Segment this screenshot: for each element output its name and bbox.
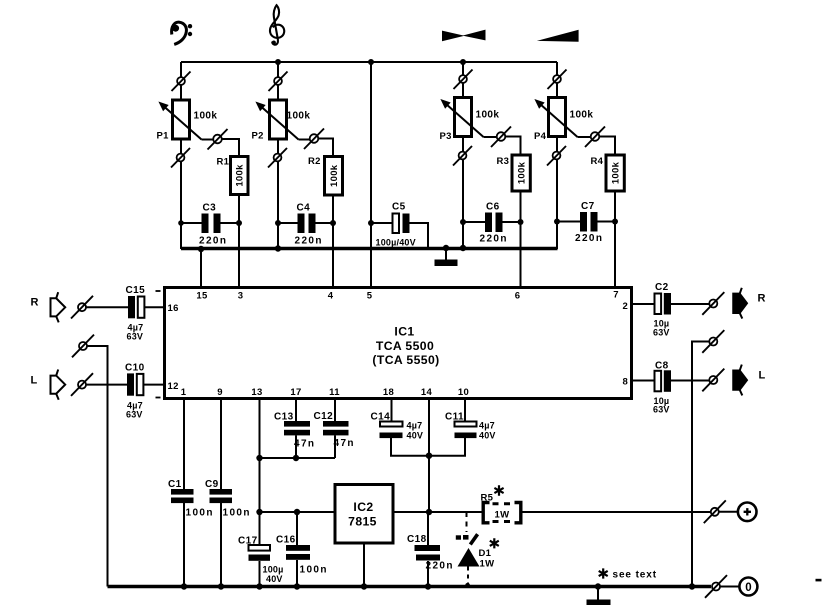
svg-text:C10: C10 — [125, 363, 145, 374]
wire: right ground column — [692, 342, 709, 587]
node C3/P1 — [178, 220, 184, 226]
stray scan mark — [816, 579, 822, 582]
node IC2 ground/bus — [361, 583, 367, 589]
volume symbol — [537, 30, 579, 42]
svg-text:16: 16 — [168, 303, 179, 314]
wire: pin 9 — [220, 399, 222, 490]
resistor R2 100k — [308, 156, 343, 195]
wire: P2 wiper to R2 — [319, 139, 334, 157]
wire: IC2 ground — [363, 543, 365, 587]
svg-text:L: L — [31, 375, 38, 387]
capacitor C15 4u7 — [126, 285, 161, 342]
wire: pin 17 — [295, 399, 297, 422]
svg-text:R5: R5 — [481, 493, 494, 504]
svg-text:4µ7: 4µ7 — [479, 421, 495, 431]
svg-text:14: 14 — [421, 387, 433, 398]
svg-text:100k: 100k — [476, 110, 500, 121]
capacitor C17 100u — [238, 536, 284, 585]
switch contact (R output ground) — [702, 330, 724, 353]
svg-text:13: 13 — [251, 387, 262, 398]
node bottom ground/bus — [595, 583, 601, 589]
svg-text:C12: C12 — [314, 411, 334, 422]
output connector R — [733, 288, 747, 319]
svg-text:220n: 220n — [426, 561, 454, 572]
resistor R3 100k — [497, 155, 531, 191]
wire: pin 10 — [464, 399, 466, 422]
capacitor C4 220n — [278, 203, 333, 247]
capacitor C5 100u/40V — [371, 202, 428, 248]
IC1 TCA 5500 — [165, 288, 632, 399]
node C4/P2 — [275, 220, 281, 226]
svg-text:IC2: IC2 — [353, 500, 373, 514]
wire: IC2 output to pin13 column — [260, 511, 335, 513]
node C7/P4 — [554, 219, 560, 225]
wire: C12 to return — [334, 435, 336, 458]
output connector L — [733, 365, 747, 396]
svg-text:R4: R4 — [591, 156, 604, 167]
node C1/bus — [181, 583, 187, 589]
potentiometer P1 100k — [157, 62, 228, 249]
svg-text:P3: P3 — [440, 131, 452, 142]
capacitor C10 4u7 — [125, 363, 161, 420]
wire: pin 5 column — [370, 62, 372, 287]
node pin13/decoupling return — [256, 455, 262, 461]
wire: C16 to bus — [296, 560, 298, 587]
wire: +15V line to + terminal — [521, 511, 711, 513]
wire: C10 to pin 12 — [144, 384, 164, 386]
terminal + — [738, 503, 757, 522]
svg-text:15: 15 — [196, 291, 208, 302]
node C17/bus — [256, 583, 262, 589]
svg-text:C2: C2 — [655, 282, 669, 293]
wire: C1 to ground bus — [183, 503, 185, 587]
potentiometer P4 100k — [534, 62, 605, 249]
svg-text:6: 6 — [515, 291, 521, 302]
capacitor C3 220n — [181, 203, 239, 247]
switch contact (R input) — [71, 296, 93, 319]
node C6/P3 — [460, 219, 466, 225]
svg-text:10: 10 — [458, 387, 469, 398]
wire: C14 to pin14 node — [391, 438, 429, 456]
wire: pin 15 — [200, 249, 202, 287]
node C7/R4 — [612, 219, 618, 225]
svg-text:220n: 220n — [199, 236, 227, 247]
node C13/return — [293, 455, 299, 461]
svg-text:R: R — [758, 293, 766, 305]
node pin14/C14/C11 — [426, 453, 432, 459]
node C3/R1 — [236, 220, 242, 226]
node C18/bus — [425, 583, 431, 589]
svg-text:7: 7 — [613, 290, 619, 301]
terminal 0 — [739, 578, 757, 596]
svg-text:17: 17 — [290, 387, 301, 398]
bass clef symbol — [172, 22, 193, 44]
svg-text:63V: 63V — [653, 328, 670, 338]
wire: pin 2 — [633, 303, 654, 305]
wire: C18 to bus — [427, 561, 429, 587]
svg-text:100n: 100n — [223, 508, 251, 519]
svg-text:C6: C6 — [486, 202, 500, 213]
wire: C15 to pin 16 — [145, 306, 164, 308]
svg-text:100n: 100n — [300, 565, 328, 576]
wire: C9 to ground bus — [220, 503, 222, 587]
wire: R2 to pin 4 — [332, 195, 334, 287]
wire: C2 to R output — [671, 303, 709, 305]
svg-text:18: 18 — [383, 387, 394, 398]
wire: top bus — [181, 61, 557, 63]
svg-text:100k: 100k — [194, 111, 218, 122]
node C4/R2 — [330, 220, 336, 226]
node bus/ground — [443, 245, 449, 251]
svg-text:C13: C13 — [274, 412, 294, 423]
node C16/+15V — [294, 509, 300, 515]
wire: pin 8 — [633, 380, 654, 382]
wire: IC2 input — [393, 511, 482, 513]
svg-text:63V: 63V — [126, 410, 143, 420]
svg-text:3: 3 — [238, 291, 244, 302]
node bus/P3 — [460, 245, 466, 251]
svg-text:C3: C3 — [203, 203, 217, 214]
svg-text:1W: 1W — [495, 510, 510, 521]
svg-text:R3: R3 — [497, 156, 510, 167]
node pin13/+15V — [256, 509, 262, 515]
capacitor C8 10u — [653, 361, 671, 415]
svg-text:C1: C1 — [168, 479, 182, 490]
input connector L — [51, 370, 66, 400]
switch contact (L input ground) — [72, 335, 94, 358]
svg-text:47n: 47n — [294, 439, 315, 450]
capacitor C7 220n — [557, 201, 615, 244]
svg-text:R: R — [31, 297, 39, 309]
wire: P4 wiper to R4 — [600, 137, 616, 156]
svg-text:100k: 100k — [516, 161, 527, 184]
svg-text:12: 12 — [168, 381, 179, 392]
svg-text:40V: 40V — [407, 431, 424, 441]
svg-text:C8: C8 — [655, 361, 669, 372]
svg-text:L: L — [759, 370, 766, 382]
wire: P3 wiper to R3 — [506, 137, 521, 156]
switch contact (+ supply) — [704, 500, 726, 523]
node top bus / pin5 column — [368, 59, 374, 65]
capacitor C16 100n — [276, 512, 328, 576]
wire: contact to 0 terminal — [720, 586, 739, 588]
node C16/bus — [294, 583, 300, 589]
svg-text:7815: 7815 — [348, 515, 377, 529]
svg-text:P2: P2 — [252, 131, 264, 142]
node pin14/+15V — [426, 509, 432, 515]
svg-text:C17: C17 — [238, 536, 258, 547]
svg-text:11: 11 — [329, 387, 340, 398]
wire: P1 wiper to R1 — [222, 139, 239, 157]
svg-text:C11: C11 — [445, 412, 464, 423]
svg-text:220n: 220n — [480, 234, 508, 245]
svg-text:P4: P4 — [534, 131, 547, 142]
svg-text:0: 0 — [745, 582, 751, 594]
svg-text:100µ: 100µ — [263, 565, 284, 575]
capacitor C18 220n — [407, 512, 454, 572]
node bus/pin15 — [198, 246, 204, 252]
svg-text:220n: 220n — [295, 236, 323, 247]
wire: R input to C15 — [86, 306, 128, 308]
capacitor C11 4u7 — [445, 412, 496, 441]
resistor R1 100k — [217, 157, 249, 195]
ground (supply 0) — [587, 587, 611, 605]
treble clef symbol — [270, 5, 284, 45]
diode D1 zener 1W (optional, dashed) — [456, 512, 499, 588]
note: see text — [599, 568, 657, 580]
wire: R4 to pin 7 — [614, 191, 616, 287]
svg-text:9: 9 — [217, 387, 223, 398]
wire: C13 to return — [295, 435, 297, 458]
node top bus / P2 — [275, 59, 281, 65]
svg-text:R2: R2 — [308, 156, 321, 167]
svg-text:C16: C16 — [276, 535, 296, 546]
svg-text:see text: see text — [613, 570, 657, 581]
svg-text:40V: 40V — [479, 431, 496, 441]
node ground column/bus — [689, 583, 695, 589]
switch contact (R output) — [702, 292, 724, 315]
wire: pin 11 — [334, 399, 336, 422]
svg-text:1: 1 — [181, 387, 187, 398]
svg-text:100n: 100n — [186, 508, 214, 519]
svg-text:TCA 5500: TCA 5500 — [376, 339, 434, 353]
wire: contact to + terminal — [719, 511, 737, 513]
voltage regulator IC2 7815 — [335, 485, 393, 544]
svg-text:4µ7: 4µ7 — [407, 421, 423, 431]
capacitor C12 47n — [314, 411, 355, 449]
svg-text:C15: C15 — [126, 285, 146, 296]
node top bus / P3 — [460, 59, 466, 65]
potentiometer P2 100k — [252, 62, 325, 249]
node C5/pin5 column — [368, 220, 374, 226]
wire: pin 1 — [183, 399, 185, 490]
capacitor C1 100n — [168, 479, 214, 519]
potentiometer P3 100k — [440, 62, 512, 249]
svg-text:1W: 1W — [480, 559, 495, 570]
wire: pot ground bus — [181, 247, 558, 250]
svg-text:2: 2 — [623, 301, 629, 312]
svg-text:IC1: IC1 — [394, 325, 414, 339]
input connector R — [51, 292, 66, 322]
wire: pin 14 — [428, 399, 430, 513]
svg-text:47n: 47n — [334, 438, 355, 449]
wire: C17 to bus — [259, 561, 261, 587]
wire: ground bus (0 line) — [108, 585, 712, 589]
capacitor C13 47n — [274, 412, 315, 450]
svg-text:C18: C18 — [407, 534, 427, 545]
wire: L input to C10 — [86, 384, 127, 386]
switch contact (0 supply) — [705, 575, 727, 598]
svg-text:R1: R1 — [217, 157, 230, 168]
wire: R3 to pin 6 — [520, 191, 522, 287]
svg-text:C4: C4 — [297, 203, 311, 214]
wire: pin 13 / +15V column — [259, 399, 261, 546]
svg-text:63V: 63V — [127, 332, 144, 342]
svg-text:4: 4 — [328, 291, 334, 302]
svg-text:P1: P1 — [157, 131, 170, 142]
svg-text:100k: 100k — [610, 161, 621, 184]
capacitor C14 4u7 — [371, 412, 424, 441]
svg-text:100k: 100k — [329, 164, 340, 187]
wire: pin 18 — [391, 399, 393, 422]
svg-text:5: 5 — [367, 291, 373, 302]
switch contact (L output) — [702, 369, 724, 392]
svg-text:63V: 63V — [653, 405, 670, 415]
svg-text:C14: C14 — [371, 412, 391, 423]
svg-text:D1: D1 — [479, 548, 492, 559]
svg-text:C7: C7 — [581, 201, 595, 212]
svg-text:40V: 40V — [266, 574, 283, 584]
node bus/P2 — [275, 245, 281, 251]
svg-text:100k: 100k — [570, 110, 594, 121]
capacitor C6 220n — [463, 202, 521, 245]
node C6/R3 — [518, 219, 524, 225]
svg-text:C9: C9 — [205, 479, 219, 490]
balance symbol — [442, 30, 486, 42]
node C9/bus — [218, 583, 224, 589]
svg-text:C5: C5 — [392, 202, 406, 213]
switch contact (L input) — [71, 373, 93, 396]
wire: R1 to pin 3 — [238, 195, 240, 288]
wire: decoupling return — [260, 457, 336, 459]
resistor R5 1W (optional, dashed) — [481, 485, 521, 523]
svg-text:100µ/40V: 100µ/40V — [376, 238, 416, 248]
wire: left ground column — [87, 346, 107, 587]
svg-text:220n: 220n — [575, 233, 603, 244]
ground (pot bus) — [435, 248, 458, 266]
svg-text:100k: 100k — [235, 164, 246, 187]
wire: C11 to pin14 node — [429, 438, 465, 456]
wire: C8 to L output — [671, 380, 709, 382]
svg-text:8: 8 — [623, 377, 629, 388]
resistor R4 100k — [591, 155, 625, 191]
capacitor C2 10u — [653, 282, 671, 338]
capacitor C9 100n — [205, 479, 251, 519]
svg-text:100k: 100k — [287, 111, 311, 122]
svg-text:(TCA 5550): (TCA 5550) — [372, 353, 439, 367]
